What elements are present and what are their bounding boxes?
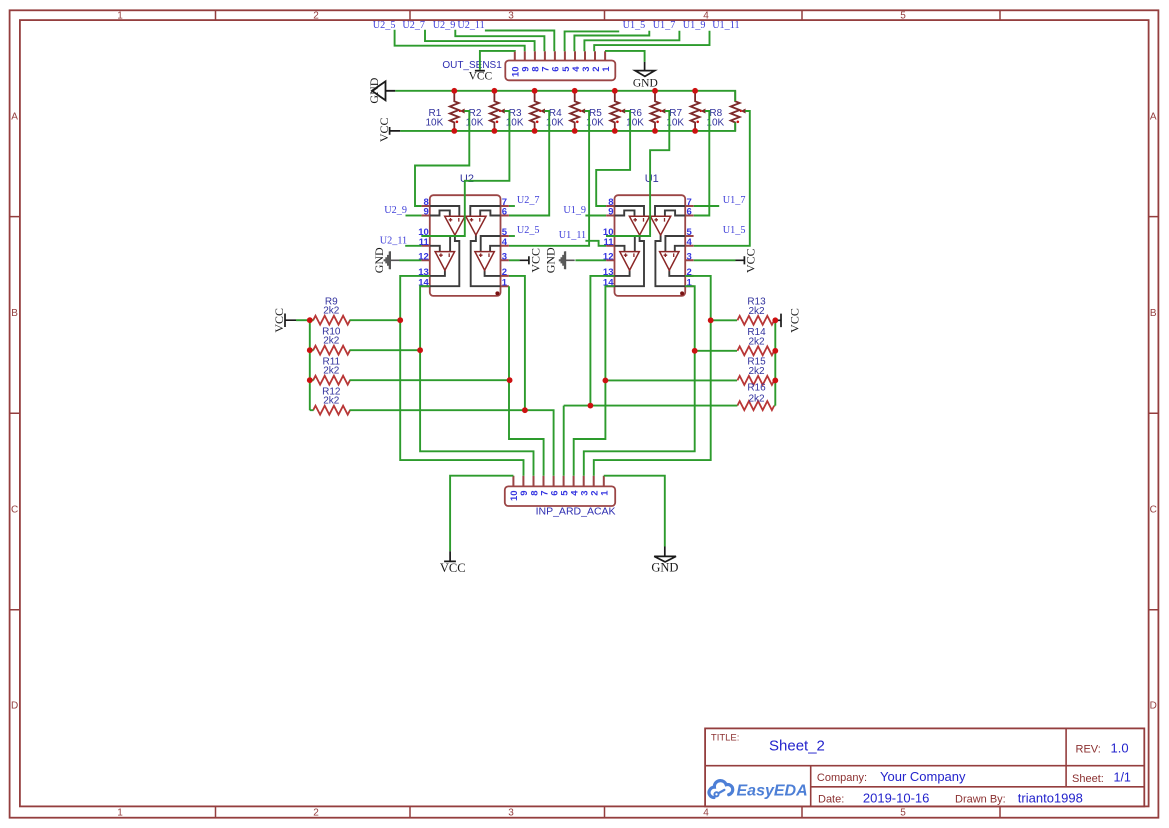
svg-text:2k2: 2k2: [748, 394, 765, 405]
svg-text:GND: GND: [633, 77, 658, 89]
svg-text:U1_7: U1_7: [723, 195, 746, 206]
svg-text:VCC: VCC: [272, 308, 286, 333]
svg-text:3: 3: [508, 808, 514, 819]
svg-text:2019-10-16: 2019-10-16: [863, 791, 930, 806]
wire net U2_9 label to connector pin7: [455, 30, 544, 51]
svg-text:4: 4: [687, 237, 693, 248]
svg-text:D: D: [11, 701, 18, 712]
wire R3 wiper to U2 pin6: [509, 111, 549, 216]
svg-text:B: B: [11, 308, 18, 319]
svg-text:GND: GND: [367, 77, 381, 103]
svg-text:4: 4: [703, 808, 709, 819]
wire R7 wiper to U1 pin6: [694, 111, 710, 216]
wire net U2_11 to U2 pin11: [405, 245, 421, 247]
svg-text:U1_11: U1_11: [712, 20, 739, 31]
junction at 454,131: [451, 128, 457, 134]
power VCC U1 pin3: [736, 256, 745, 264]
svg-text:2k2: 2k2: [323, 306, 340, 317]
svg-text:6: 6: [502, 207, 507, 218]
power VCC rail flag left: [390, 127, 401, 135]
junction at 310,320: [307, 317, 313, 323]
svg-text:4: 4: [502, 237, 508, 248]
junction at 695,351: [692, 348, 698, 354]
power VCC bottom: [444, 551, 456, 561]
wire connector pin10 to VCC: [450, 476, 513, 552]
junction at 310,380: [307, 377, 313, 383]
junction at 454,91: [451, 88, 457, 94]
wire R5 wiper to U1 pin8: [596, 111, 630, 206]
svg-text:B: B: [1150, 308, 1157, 319]
junction at 575,91: [572, 88, 578, 94]
junction at 775,351: [772, 348, 778, 354]
wire R9 row: [310, 319, 400, 321]
wire R4 wiper to U2 pin4: [509, 111, 589, 246]
power VCC U2 pin3: [520, 256, 529, 264]
svg-text:U2_11: U2_11: [380, 235, 407, 246]
wire U2 pin3 to VCC: [509, 259, 520, 261]
svg-text:U1_9: U1_9: [683, 20, 706, 31]
svg-text:Your Company: Your Company: [880, 769, 966, 784]
title block grid: [705, 728, 1144, 806]
svg-text:10K: 10K: [426, 118, 444, 129]
svg-text:10K: 10K: [626, 118, 644, 129]
svg-text:2: 2: [313, 10, 319, 21]
power VCC right pullups: [778, 314, 781, 328]
resistor R9 2k2: [313, 316, 350, 325]
svg-text:GND: GND: [544, 247, 558, 273]
wire connector pin1 to GND: [604, 476, 665, 547]
wire connector pin1 to GND: [605, 51, 645, 62]
svg-text:U2_5: U2_5: [517, 225, 540, 236]
junction at 420,350: [417, 347, 423, 353]
wire U2 pin12 to GND: [399, 259, 421, 261]
junction at 615,91: [612, 88, 618, 94]
junction at 535,131: [532, 128, 538, 134]
wire U2 pin13 to connector pin9: [400, 276, 523, 476]
junction at 615,131: [612, 128, 618, 134]
wire net U2_7 label to connector pin8: [425, 30, 535, 51]
wire net U2_5 label to connector pin9: [395, 30, 525, 51]
wire U1 pin3 to VCC: [694, 259, 736, 261]
svg-text:U1_5: U1_5: [623, 20, 646, 31]
wire U1 pin13 to R16 node: [590, 276, 614, 406]
svg-text:2k2: 2k2: [323, 396, 340, 407]
svg-text:2k2: 2k2: [323, 366, 340, 377]
wire GND rail top: [395, 91, 735, 102]
connector INP_ARD_ACAK: [505, 476, 615, 506]
junction at 575,131: [572, 128, 578, 134]
svg-text:U1_5: U1_5: [723, 225, 746, 236]
resistor R13 2k2: [737, 316, 774, 325]
svg-text:U2_11: U2_11: [457, 20, 484, 31]
junction at 695,91: [692, 88, 698, 94]
svg-text:Sheet:: Sheet:: [1072, 773, 1104, 785]
svg-text:U1: U1: [645, 173, 659, 185]
wire U1 pin1 to connector pin3: [584, 286, 695, 476]
wire net U1_9 label to connector pin3: [584, 31, 679, 52]
svg-text:U1_11: U1_11: [559, 230, 586, 241]
svg-text:3: 3: [502, 252, 507, 263]
svg-text:VCC: VCC: [440, 561, 466, 575]
wire U2 pin5 to net U2_5: [509, 235, 515, 237]
wire R8 wiper to U1 pin4: [694, 111, 750, 246]
junction at 400,320: [397, 317, 403, 323]
junction at 494,91: [492, 88, 498, 94]
svg-text:2k2: 2k2: [748, 336, 765, 347]
junction at 655,131: [652, 128, 658, 134]
wire net U1_11 to U1 pin11: [585, 241, 606, 246]
resistor R11 2k2: [313, 376, 350, 385]
junction at 590,406: [588, 403, 594, 409]
svg-text:U2_7: U2_7: [402, 20, 425, 31]
resistor R5 10K trimmer: [610, 91, 627, 131]
junction at 525,410: [522, 407, 528, 413]
power VCC left pullups: [285, 314, 296, 328]
svg-text:Company:: Company:: [817, 772, 867, 784]
svg-text:Drawn By:: Drawn By:: [955, 794, 1006, 806]
svg-text:VCC: VCC: [529, 248, 543, 273]
wire R10 row: [310, 349, 420, 351]
svg-text:U2_9: U2_9: [384, 205, 407, 216]
EasyEDA logo: [709, 781, 808, 800]
wire net U1_7 label to connector pin4: [574, 31, 649, 52]
wire R12 row to connector pin6: [310, 410, 554, 476]
wire net U1_9 to U1 pin9: [585, 215, 606, 217]
resistor R12 2k2: [313, 406, 350, 415]
svg-text:INP_ARD_ACAK: INP_ARD_ACAK: [536, 505, 616, 517]
junction at 655,91: [652, 88, 658, 94]
svg-text:U2: U2: [460, 173, 474, 185]
resistor R15 2k2: [737, 376, 774, 385]
wire U1 pin14 to connector pin4: [574, 286, 615, 476]
svg-text:A: A: [11, 112, 18, 123]
junction at 695,131: [692, 128, 698, 134]
wire U2 pin2 to R12 node: [509, 276, 525, 410]
svg-text:1: 1: [601, 66, 612, 72]
wire VCC rail: [400, 123, 735, 131]
resistor R6 10K trimmer: [651, 91, 668, 131]
junction at 775,320: [772, 317, 778, 323]
ground U2 pin12: [384, 252, 391, 270]
svg-text:U2_5: U2_5: [373, 20, 396, 31]
resistor R1 10K trimmer: [450, 91, 467, 131]
svg-text:9: 9: [608, 207, 613, 218]
resistor R7 10K trimmer: [691, 91, 708, 131]
svg-text:U2_9: U2_9: [433, 20, 456, 31]
wire VCC to connector pin10: [480, 51, 515, 70]
wire R16 row to connector pin5: [564, 406, 776, 476]
ground U1 pin12: [559, 252, 566, 270]
svg-text:VCC: VCC: [377, 117, 391, 142]
power VCC top: [475, 70, 485, 72]
wire VCC stub right: [775, 319, 778, 321]
svg-text:U1_7: U1_7: [653, 20, 676, 31]
wire R15 row: [605, 379, 775, 381]
svg-text:C: C: [1150, 505, 1157, 516]
svg-text:R16: R16: [747, 383, 766, 394]
resistor R3 10K trimmer: [530, 91, 547, 131]
svg-text:6: 6: [687, 207, 692, 218]
svg-text:D: D: [1150, 701, 1157, 712]
svg-text:TITLE:: TITLE:: [711, 733, 740, 744]
svg-text:1: 1: [117, 10, 123, 21]
wire R11 row: [310, 379, 510, 381]
resistor R10 2k2: [313, 346, 350, 355]
resistor R4 10K trimmer: [570, 91, 587, 131]
connector OUT_SENS1: [505, 51, 615, 80]
svg-text:1.0: 1.0: [1111, 741, 1129, 756]
wire R14 row: [695, 350, 776, 352]
svg-text:EasyEDA: EasyEDA: [737, 783, 808, 800]
wire VCC stub left: [296, 319, 310, 321]
resistor R16 2k2: [737, 401, 774, 410]
svg-text:1: 1: [600, 490, 611, 496]
svg-text:2k2: 2k2: [323, 336, 340, 347]
junction at 535,91: [532, 88, 538, 94]
svg-text:VCC: VCC: [744, 248, 758, 273]
wire net U1_5 label to connector pin5: [565, 31, 620, 51]
wire U2 pin1 to connector pin7: [509, 286, 544, 476]
svg-text:1/1: 1/1: [1114, 771, 1131, 785]
svg-text:GND: GND: [372, 247, 386, 273]
wire U1 pin2 to connector pin2: [594, 276, 711, 476]
svg-text:trianto1998: trianto1998: [1018, 791, 1083, 806]
wire U2 pin14 to connector pin8: [420, 286, 533, 476]
wire net U2_9 to U2 pin9: [406, 215, 422, 217]
svg-text:GND: GND: [651, 560, 678, 574]
junction at 494,131: [492, 128, 498, 134]
junction at 775,380: [772, 378, 778, 384]
junction at 510,380: [507, 377, 513, 383]
wire U2 pin7 to net U2_7: [509, 205, 515, 207]
svg-text:2: 2: [313, 808, 319, 819]
wire VCC right rail vertical: [774, 320, 776, 405]
junction at 310,350: [307, 347, 313, 353]
svg-text:VCC: VCC: [469, 70, 493, 82]
ground GND bottom: [654, 547, 676, 562]
ground GND top: [635, 62, 655, 77]
svg-text:A: A: [1150, 112, 1157, 123]
svg-text:1: 1: [502, 277, 508, 288]
wire R2 wiper to U2 pin10: [421, 111, 509, 236]
svg-text:U1_9: U1_9: [563, 205, 586, 216]
svg-text:9: 9: [424, 207, 429, 218]
ground rail flag left: [372, 81, 395, 100]
op-amp U1 LM339 quad comparator: [603, 195, 694, 296]
wire R13 row: [711, 319, 776, 321]
op-amp U2 LM339 quad comparator: [418, 195, 509, 296]
svg-text:2k2: 2k2: [748, 366, 765, 377]
wire net U1_11 label to connector pin2: [594, 31, 709, 52]
resistor R8 10K trimmer: [731, 91, 748, 131]
svg-text:1: 1: [117, 808, 123, 819]
svg-text:3: 3: [687, 252, 692, 263]
svg-text:U2_7: U2_7: [517, 195, 540, 206]
svg-text:5: 5: [900, 10, 906, 21]
wire R1 wiper to U2 pin8: [415, 111, 469, 206]
svg-text:REV:: REV:: [1076, 744, 1101, 756]
svg-text:3: 3: [508, 10, 514, 21]
wire R6 wiper to U1 pin10: [606, 111, 669, 236]
junction at 711,320: [708, 317, 714, 323]
junction at 605,380: [603, 378, 609, 384]
resistor R2 10K trimmer: [490, 91, 507, 131]
wire net U2_11 label to connector pin6: [485, 31, 554, 52]
svg-text:2k2: 2k2: [748, 306, 765, 317]
svg-text:Date:: Date:: [818, 794, 844, 806]
wire U1 pin7 to net U1_7: [694, 205, 720, 207]
wire VCC left rail vertical: [309, 320, 311, 410]
svg-text:5: 5: [900, 808, 906, 819]
svg-text:Sheet_2: Sheet_2: [769, 738, 825, 755]
wire U1 pin12 to GND: [575, 259, 606, 261]
svg-text:C: C: [11, 505, 18, 516]
svg-text:VCC: VCC: [788, 308, 802, 333]
resistor R14 2k2: [737, 346, 774, 355]
